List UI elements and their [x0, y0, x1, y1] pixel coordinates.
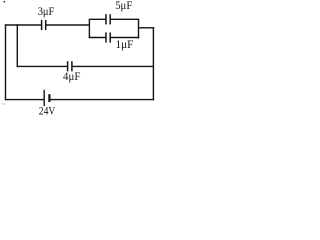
capacitor 3uF	[42, 20, 46, 30]
wire outer left vertical	[5, 24, 7, 100]
svg-text:1μF: 1μF	[116, 37, 134, 51]
svg-text:24V: 24V	[39, 104, 56, 118]
svg-text:4μF: 4μF	[63, 69, 81, 83]
capacitor 4uF	[68, 61, 72, 71]
wire middle branch	[17, 65, 155, 67]
wire parallel-combo right vertical	[138, 19, 140, 38]
svg-text:5μF: 5μF	[115, 0, 132, 12]
wire top branch of combo (5uF branch)	[89, 18, 140, 20]
speck (scan noise dot)	[4, 1, 6, 3]
wire outer right vertical	[152, 27, 154, 100]
speck (faint smudge lower-left)	[1, 103, 5, 105]
wire inner left vertical	[16, 24, 18, 67]
wire parallel-combo left vertical (node after 3uF)	[88, 19, 90, 38]
battery V1 24V short plate	[48, 94, 50, 102]
wire combo output to right rail	[139, 27, 155, 29]
capacitor 5uF	[106, 14, 110, 24]
capacitor 1uF	[106, 32, 110, 42]
svg-text:3μF: 3μF	[38, 4, 55, 18]
wire bottom (battery loop)	[5, 99, 154, 101]
wire top (node between battery + and 3uF)	[5, 24, 90, 26]
wire bottom branch of combo (1uF branch)	[89, 37, 140, 39]
battery V1 24V long plate	[43, 90, 45, 106]
